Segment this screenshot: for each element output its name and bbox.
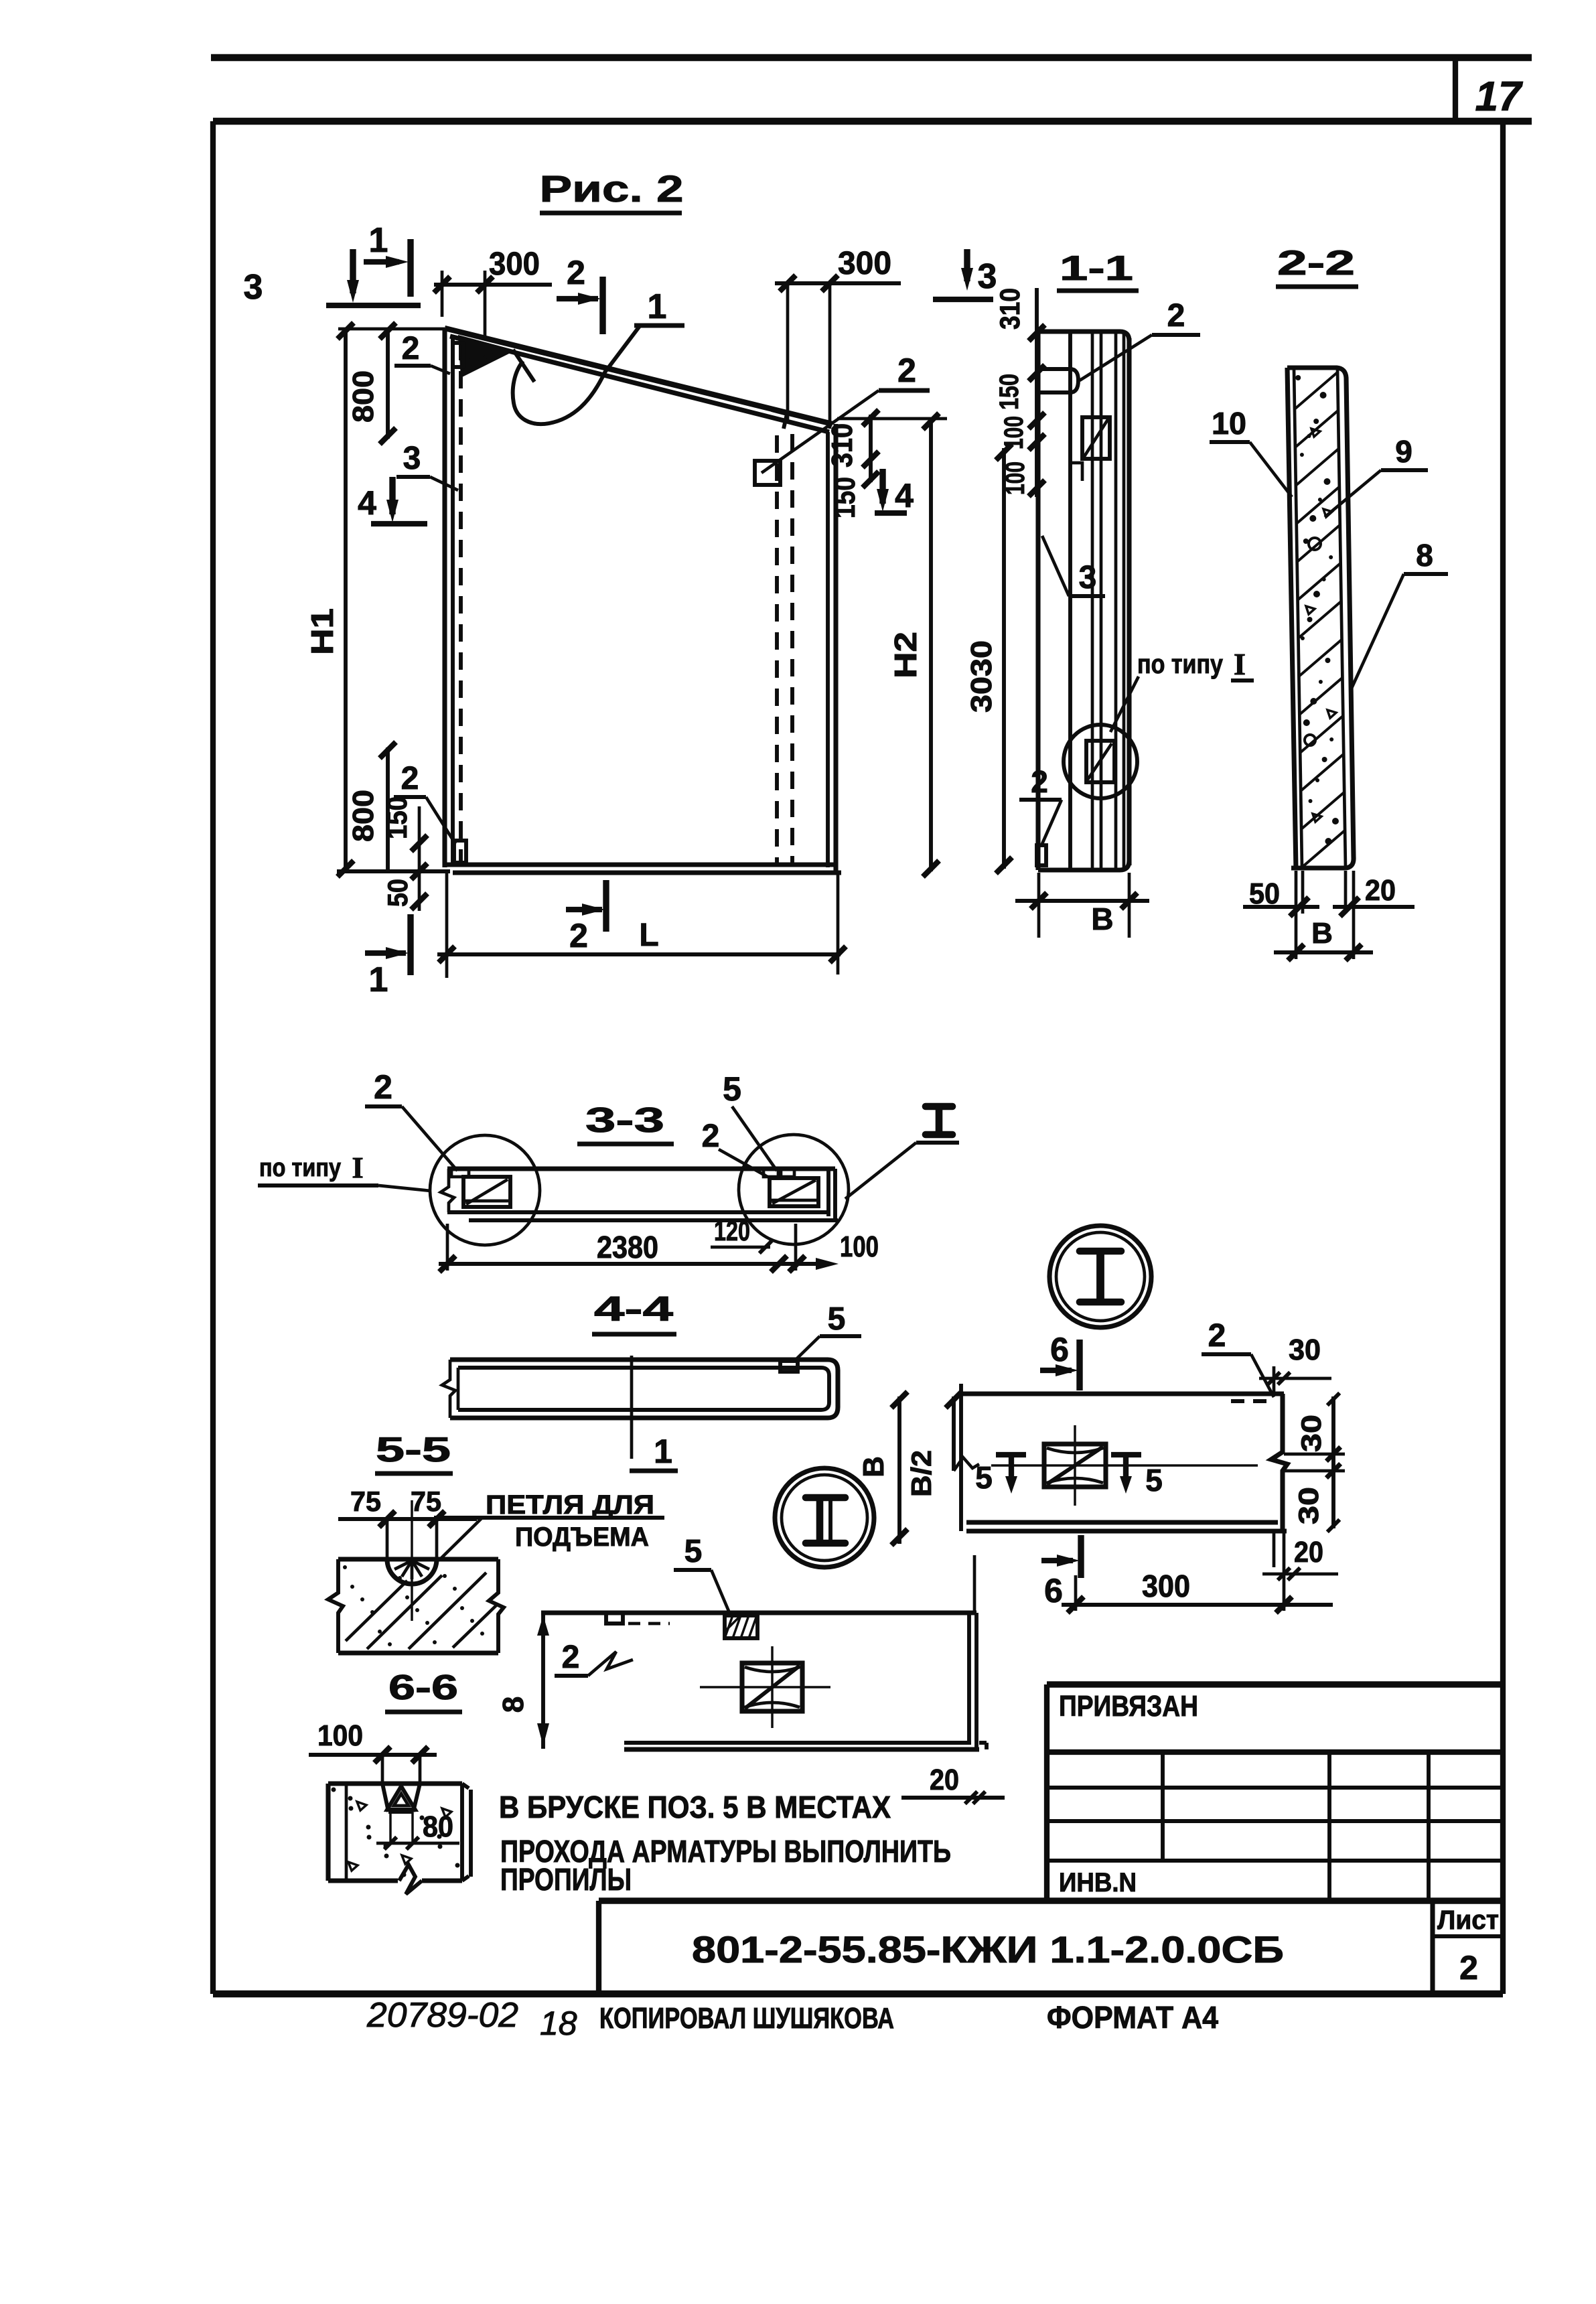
svg-text:120: 120 <box>714 1215 750 1246</box>
svg-text:20789-02: 20789-02 <box>366 1996 518 2035</box>
svg-text:L: L <box>639 918 658 953</box>
svg-text:1: 1 <box>369 221 388 260</box>
svg-text:2: 2 <box>401 761 419 796</box>
svg-text:50: 50 <box>382 879 413 907</box>
svg-text:75: 75 <box>411 1486 441 1517</box>
svg-text:3-3: 3-3 <box>585 1101 664 1140</box>
svg-text:100: 100 <box>840 1230 879 1263</box>
svg-text:1: 1 <box>654 1433 672 1470</box>
svg-text:B/2: B/2 <box>905 1450 937 1497</box>
svg-text:1: 1 <box>648 287 667 326</box>
svg-text:В БРУСКЕ ПОЗ. 5 В МЕСТАХ: В БРУСКЕ ПОЗ. 5 В МЕСТАХ <box>499 1790 891 1824</box>
svg-text:2: 2 <box>1459 1949 1478 1987</box>
svg-text:ФОРМАТ А4: ФОРМАТ А4 <box>1047 2000 1218 2035</box>
svg-text:9: 9 <box>1395 434 1412 469</box>
svg-text:30: 30 <box>1293 1487 1324 1524</box>
svg-text:2: 2 <box>562 1640 580 1675</box>
svg-text:по типу: по типу <box>259 1154 341 1182</box>
svg-text:3: 3 <box>244 268 263 307</box>
svg-text:5-5: 5-5 <box>376 1431 451 1469</box>
svg-text:6: 6 <box>1050 1331 1069 1368</box>
svg-text:100: 100 <box>999 416 1029 449</box>
svg-text:H2: H2 <box>888 632 923 678</box>
svg-text:ИНВ.N: ИНВ.N <box>1059 1868 1137 1897</box>
svg-text:17: 17 <box>1475 74 1523 120</box>
svg-text:300: 300 <box>838 246 891 281</box>
svg-text:801-2-55.85-КЖИ 1.1-2.0.0СБ: 801-2-55.85-КЖИ 1.1-2.0.0СБ <box>692 1928 1284 1970</box>
svg-text:2-2: 2-2 <box>1277 244 1355 283</box>
svg-text:10: 10 <box>1212 406 1246 441</box>
svg-text:Рис. 2: Рис. 2 <box>540 167 684 210</box>
svg-text:6-6: 6-6 <box>388 1668 458 1707</box>
svg-text:2: 2 <box>1031 764 1048 799</box>
svg-text:50: 50 <box>1249 877 1280 910</box>
svg-text:2: 2 <box>1208 1318 1226 1354</box>
svg-text:30: 30 <box>1289 1334 1321 1366</box>
svg-text:4-4: 4-4 <box>594 1290 673 1329</box>
svg-text:800: 800 <box>347 370 380 423</box>
svg-text:8: 8 <box>497 1697 530 1713</box>
svg-text:B: B <box>1311 917 1333 950</box>
svg-text:2: 2 <box>1167 298 1185 334</box>
svg-text:4: 4 <box>895 477 914 514</box>
svg-text:4: 4 <box>358 484 376 522</box>
svg-text:150: 150 <box>995 374 1024 410</box>
svg-text:5: 5 <box>1145 1463 1163 1498</box>
svg-text:5: 5 <box>723 1070 741 1108</box>
svg-text:3: 3 <box>1079 560 1097 595</box>
svg-text:B: B <box>1091 902 1113 936</box>
svg-text:300: 300 <box>1142 1569 1190 1603</box>
svg-text:300: 300 <box>489 246 540 282</box>
svg-text:1-1: 1-1 <box>1060 249 1133 288</box>
svg-text:1: 1 <box>369 960 388 999</box>
svg-text:150: 150 <box>381 796 413 839</box>
svg-text:2: 2 <box>567 254 585 291</box>
svg-text:по типу: по типу <box>1137 650 1224 679</box>
svg-text:75: 75 <box>350 1486 381 1517</box>
svg-text:I: I <box>352 1151 363 1184</box>
svg-text:5: 5 <box>684 1534 703 1569</box>
svg-text:2: 2 <box>702 1119 720 1154</box>
svg-text:150: 150 <box>828 477 861 518</box>
svg-text:8: 8 <box>1416 538 1433 573</box>
svg-text:КОПИРОВАЛ ШУШЯКОВА: КОПИРОВАЛ ШУШЯКОВА <box>599 2002 894 2035</box>
svg-text:2380: 2380 <box>597 1230 658 1265</box>
svg-text:Лист: Лист <box>1437 1905 1499 1935</box>
svg-text:ПЕТЛЯ ДЛЯ: ПЕТЛЯ ДЛЯ <box>486 1490 654 1520</box>
svg-text:H1: H1 <box>305 608 340 655</box>
svg-text:18: 18 <box>540 2005 577 2042</box>
svg-text:2: 2 <box>402 331 420 366</box>
svg-text:20: 20 <box>1365 874 1396 907</box>
svg-text:30: 30 <box>1295 1415 1327 1452</box>
svg-text:2: 2 <box>569 917 588 954</box>
svg-text:B: B <box>857 1456 890 1478</box>
svg-text:3030: 3030 <box>965 640 998 713</box>
svg-text:310: 310 <box>994 288 1025 330</box>
svg-text:20: 20 <box>1294 1536 1323 1569</box>
svg-text:6: 6 <box>1044 1572 1063 1609</box>
svg-text:ПРОПИЛЫ: ПРОПИЛЫ <box>500 1862 632 1897</box>
svg-text:2: 2 <box>374 1068 392 1106</box>
svg-text:800: 800 <box>347 790 380 842</box>
svg-text:310: 310 <box>826 423 859 467</box>
svg-text:I: I <box>1234 647 1246 681</box>
svg-text:2: 2 <box>897 352 916 389</box>
svg-text:20: 20 <box>930 1763 959 1796</box>
svg-text:ПОДЪЕМА: ПОДЪЕМА <box>515 1522 649 1552</box>
svg-text:3: 3 <box>403 441 421 476</box>
svg-text:ПРИВЯЗАН: ПРИВЯЗАН <box>1059 1690 1198 1723</box>
svg-text:5: 5 <box>828 1301 846 1337</box>
svg-text:100: 100 <box>317 1719 363 1752</box>
